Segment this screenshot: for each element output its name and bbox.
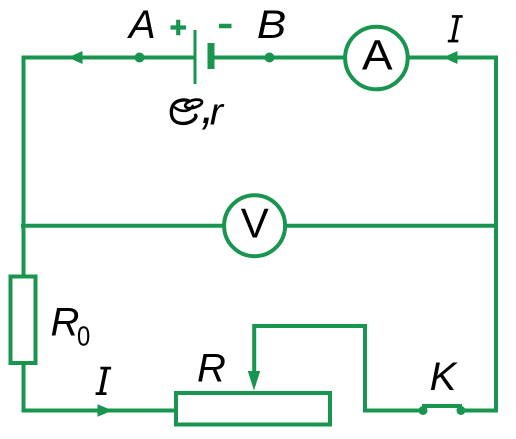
svg-text:r: r	[210, 91, 225, 133]
svg-text:K: K	[430, 355, 459, 399]
svg-text:V: V	[241, 200, 269, 247]
svg-text:B: B	[257, 2, 286, 47]
svg-text:A: A	[127, 3, 156, 47]
svg-text:A: A	[362, 32, 393, 79]
svg-text:R: R	[51, 301, 80, 345]
svg-text:0: 0	[77, 320, 90, 352]
svg-text:R: R	[197, 347, 226, 391]
